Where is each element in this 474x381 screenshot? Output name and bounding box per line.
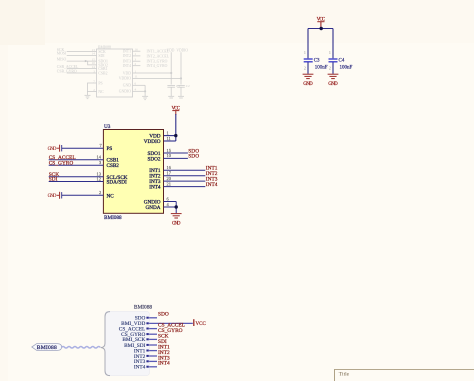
ghost junction VDD [170, 72, 172, 74]
svg-text:INT1: INT1 [123, 50, 131, 54]
svg-text:100nF: 100nF [315, 65, 328, 70]
wire VDDIO [164, 140, 176, 142]
ghost IC body [97, 49, 133, 97]
ground symbol below C3 [303, 74, 314, 78]
svg-text:U3: U3 [104, 124, 111, 130]
svg-text:2: 2 [329, 65, 331, 70]
power symbol GND bar at NC [57, 192, 60, 199]
svg-text:1: 1 [304, 50, 306, 55]
svg-text:BMI088: BMI088 [134, 305, 153, 311]
svg-text:SDI: SDI [49, 177, 58, 183]
wire PS to ground [88, 83, 97, 92]
svg-text:BMI088: BMI088 [104, 215, 122, 221]
wire gnd riser ghost [144, 85, 146, 96]
sheet left margin band [0, 45, 8, 381]
svg-text:GND: GND [328, 82, 338, 87]
power symbol VCC above U3 [172, 111, 179, 115]
harness entries [119, 316, 146, 371]
svg-text:GNDIO: GNDIO [119, 90, 131, 94]
pin INT4 wire [164, 186, 206, 188]
svg-text:SDO: SDO [158, 312, 169, 318]
pin NC wire [62, 194, 104, 196]
svg-text:NC: NC [98, 90, 104, 94]
svg-text:CSB_GYRO: CSB_GYRO [57, 69, 77, 73]
ground symbol U3 [171, 214, 182, 218]
svg-text:GND: GND [172, 222, 181, 227]
svg-text:VDDIO: VDDIO [176, 49, 188, 53]
harness brace [101, 312, 110, 376]
junction VDD [174, 134, 177, 137]
svg-text:INT4: INT4 [134, 365, 146, 371]
svg-text:CSB1: CSB1 [98, 67, 107, 71]
svg-text:BMI088: BMI088 [37, 345, 57, 351]
svg-text:VCC: VCC [317, 18, 326, 23]
svg-text:11: 11 [135, 75, 138, 79]
harness cable label BMI088 [32, 344, 62, 351]
power symbol VCC at BMI_VDD [193, 319, 195, 326]
pin INT2 wire [164, 175, 206, 177]
pin SCK wire [49, 176, 104, 178]
capacitor C4 [329, 59, 338, 62]
harness stub wires [149, 318, 193, 367]
wire VCC to VDD/VDDIO [164, 114, 176, 141]
wire INT4 ghost [133, 65, 141, 67]
ghost junction GND [144, 90, 146, 92]
svg-text:NC: NC [107, 193, 115, 199]
pin SDO1 wire [164, 152, 188, 154]
svg-text:CSB2: CSB2 [98, 71, 107, 75]
U3 pin names [107, 134, 161, 211]
svg-text:CSB_ACCEL: CSB_ACCEL [57, 65, 79, 69]
svg-text:PS: PS [98, 81, 102, 85]
wire CSB1 [67, 68, 97, 70]
pin PS wire [49, 148, 206, 213]
svg-text:GND: GND [48, 194, 57, 199]
pin GNDA wire [164, 206, 177, 208]
svg-text:GND: GND [303, 82, 313, 87]
svg-text:C3: C3 [314, 59, 320, 64]
pin CSB1 wire [49, 159, 104, 161]
svg-text:SDA/SDI: SDA/SDI [107, 180, 127, 186]
svg-text:INT4_GYRO: INT4_GYRO [147, 64, 168, 68]
wire INT1 ghost [133, 50, 141, 52]
svg-text:MISO: MISO [57, 57, 67, 61]
ghost ground left [85, 94, 91, 96]
pin numbers C3 [304, 50, 331, 70]
svg-text:2: 2 [99, 190, 101, 195]
U3 pin numbers [97, 130, 172, 206]
svg-text:SDO: SDO [188, 154, 199, 160]
ghost ground mid [142, 95, 148, 97]
wire C3 upper [307, 29, 309, 59]
svg-text:12: 12 [97, 176, 101, 181]
wire VDD ghost [133, 72, 172, 74]
svg-text:VCC: VCC [196, 322, 207, 327]
harness panel [105, 311, 150, 375]
svg-text:2: 2 [304, 65, 306, 70]
svg-text:VDDIO: VDDIO [119, 77, 131, 81]
pin SDO2 wire [164, 157, 188, 159]
svg-text:C4: C4 [339, 59, 345, 64]
wire VDDIO ghost [133, 77, 182, 79]
wire SDI [67, 54, 97, 56]
wire SDO branch [88, 61, 97, 65]
svg-text:INT4: INT4 [158, 361, 170, 367]
wire GND ghost [133, 84, 146, 86]
pin GNDIO wire [164, 201, 177, 203]
wire gnd riser [175, 202, 177, 214]
ghost arrow SDO [85, 60, 88, 62]
power symbol VCC top [317, 22, 324, 29]
svg-text:SDO2: SDO2 [148, 156, 161, 162]
power symbol GND bar at PS [57, 145, 60, 152]
harness cable squiggle [62, 347, 101, 349]
svg-text:INT4: INT4 [149, 185, 161, 191]
svg-text:VDD: VDD [167, 49, 175, 53]
wire VDD [164, 135, 176, 137]
wire SCK [67, 51, 97, 53]
svg-text:MOSI: MOSI [57, 52, 67, 56]
wire C4 upper [332, 29, 334, 59]
svg-text:PS: PS [107, 146, 113, 152]
wire VCC riser [308, 29, 333, 74]
wire GNDIO ghost [133, 90, 146, 92]
ground symbol below C4 [328, 74, 339, 78]
capacitor C1 ghost branch [170, 52, 172, 84]
junction VCC [320, 27, 323, 30]
svg-text:GND: GND [123, 84, 131, 88]
svg-text:SDI: SDI [98, 54, 105, 58]
svg-text:1: 1 [167, 130, 169, 135]
wire SDO [67, 60, 97, 62]
svg-text:21: 21 [167, 181, 171, 186]
svg-text:14: 14 [92, 52, 96, 56]
wire C3 lower [307, 62, 309, 74]
svg-text:GND: GND [48, 147, 57, 152]
svg-text:VDDIO: VDDIO [144, 139, 161, 145]
op IC U3 body [103, 130, 163, 214]
svg-text:INT3_GYRO: INT3_GYRO [147, 60, 168, 64]
svg-text:VCC: VCC [172, 106, 181, 111]
wire INT2 ghost [133, 55, 141, 57]
harness pins [146, 317, 148, 368]
svg-text:INT3: INT3 [123, 60, 131, 64]
wire VCC horizontal [308, 28, 333, 30]
svg-text:CSB2: CSB2 [107, 163, 120, 169]
svg-text:1: 1 [329, 50, 331, 55]
wire NC to ground [88, 92, 97, 96]
sheet top margin band [0, 0, 45, 45]
svg-text:INT4: INT4 [206, 182, 218, 188]
wire C4 lower [332, 62, 334, 74]
capacitor C3 [304, 59, 313, 62]
svg-text:CS_GYRO: CS_GYRO [49, 160, 74, 166]
pin INT1 wire [164, 169, 206, 171]
svg-text:INT2: INT2 [123, 54, 131, 58]
svg-text:100nF: 100nF [340, 65, 353, 70]
ghost junction VDDIO [180, 77, 182, 79]
wire CSB2 [67, 72, 97, 74]
svg-text:INT2_ACCEL: INT2_ACCEL [147, 54, 170, 58]
pin INT3 wire [164, 180, 206, 182]
svg-text:VDD: VDD [123, 71, 131, 75]
svg-text:C1: C1 [176, 84, 180, 88]
wire INT3 ghost [133, 60, 141, 62]
svg-text:Title: Title [339, 371, 350, 377]
svg-text:INT4: INT4 [123, 64, 131, 68]
svg-text:C2: C2 [186, 84, 190, 88]
svg-text:GNDA: GNDA [146, 205, 161, 211]
svg-text:16: 16 [135, 48, 139, 52]
capacitor C2 ghost branch [180, 52, 182, 84]
svg-text:14: 14 [92, 65, 96, 69]
junction GNDA [175, 205, 178, 208]
pin CSB2 wire [49, 164, 104, 166]
pin SDI wire [49, 181, 104, 183]
svg-text:11: 11 [167, 136, 171, 141]
